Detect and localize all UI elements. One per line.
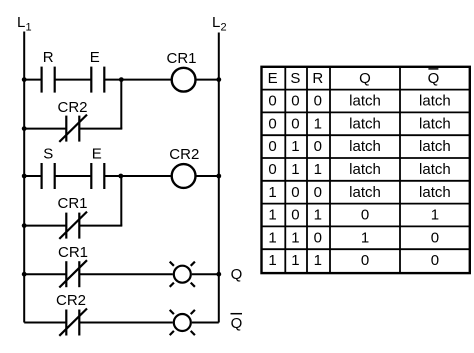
svg-text:Q: Q: [231, 266, 243, 283]
svg-text:CR2: CR2: [56, 292, 86, 309]
junction rung3 left: [22, 272, 27, 277]
svg-text:0: 0: [431, 229, 439, 246]
svg-text:0: 0: [268, 115, 276, 132]
svg-text:1: 1: [291, 229, 299, 246]
truth table header: [268, 70, 440, 87]
svg-text:0: 0: [314, 184, 322, 201]
junction rung2 left: [22, 174, 27, 179]
svg-text:0: 0: [291, 184, 299, 201]
wire branch2: [24, 176, 122, 226]
svg-text:0: 0: [431, 252, 439, 269]
svg-text:latch: latch: [419, 115, 451, 132]
svg-text:0: 0: [361, 252, 369, 269]
svg-text:1: 1: [291, 138, 299, 155]
svg-text:latch: latch: [349, 184, 381, 201]
svg-text:0: 0: [268, 161, 276, 178]
junction rung1 left: [22, 77, 27, 82]
svg-text:CR1: CR1: [166, 50, 196, 67]
svg-text:0: 0: [291, 93, 299, 110]
svg-text:1: 1: [314, 207, 322, 224]
svg-text:1: 1: [26, 21, 32, 33]
svg-text:latch: latch: [349, 115, 381, 132]
truth table row lines: [262, 90, 470, 250]
truth table row 2: [268, 115, 450, 132]
svg-text:latch: latch: [349, 138, 381, 155]
svg-text:S: S: [43, 146, 53, 163]
svg-text:CR2: CR2: [169, 146, 199, 163]
svg-text:S: S: [290, 70, 300, 87]
truth table row 1: [268, 93, 450, 110]
svg-text:0: 0: [314, 138, 322, 155]
svg-text:latch: latch: [419, 138, 451, 155]
svg-text:0: 0: [314, 93, 322, 110]
truth table row 3: [268, 138, 450, 155]
svg-text:0: 0: [291, 115, 299, 132]
svg-text:Q: Q: [428, 70, 440, 87]
contact E rung2: [91, 163, 104, 189]
svg-text:E: E: [268, 70, 278, 87]
truth table header Qbar overline: [428, 68, 438, 70]
truth table row 6: [268, 207, 439, 224]
junction rung2 branch: [118, 174, 123, 179]
label L1: [17, 14, 32, 33]
svg-text:0: 0: [268, 138, 276, 155]
truth table column lines: [285, 67, 400, 273]
svg-text:latch: latch: [349, 161, 381, 178]
svg-text:Q: Q: [359, 70, 371, 87]
svg-text:latch: latch: [419, 184, 451, 201]
junction rung2 right: [216, 174, 221, 179]
wire rung1: [24, 79, 219, 81]
svg-text:0: 0: [268, 93, 276, 110]
wire branch1: [24, 80, 122, 129]
contact CR2 NC rung4: [59, 309, 87, 336]
svg-text:1: 1: [431, 207, 439, 224]
svg-text:L: L: [17, 14, 25, 31]
svg-text:1: 1: [314, 252, 322, 269]
rail L2: [218, 33, 220, 323]
contact CR1 NC rung3: [59, 260, 87, 287]
lamp Qbar: [170, 310, 195, 335]
label Qbar output: [231, 314, 243, 332]
junction branch2 left: [22, 223, 27, 228]
contact CR1 NC branch2: [59, 212, 87, 239]
svg-text:1: 1: [268, 252, 276, 269]
svg-text:R: R: [43, 49, 54, 66]
junction rung1 branch: [119, 77, 124, 82]
contact E rung1: [91, 67, 104, 93]
svg-text:R: R: [312, 70, 323, 87]
svg-text:0: 0: [291, 207, 299, 224]
svg-text:latch: latch: [419, 93, 451, 110]
junction branch1 left: [22, 126, 27, 131]
svg-text:1: 1: [314, 161, 322, 178]
svg-text:1: 1: [361, 229, 369, 246]
svg-text:E: E: [90, 49, 100, 66]
svg-text:1: 1: [268, 184, 276, 201]
svg-text:CR2: CR2: [57, 99, 87, 116]
truth table row 7: [268, 229, 439, 246]
label L2: [212, 14, 227, 33]
svg-text:CR1: CR1: [57, 195, 87, 212]
truth table row 4: [268, 161, 450, 178]
svg-text:1: 1: [314, 115, 322, 132]
truth table row 5: [268, 184, 450, 201]
truth table row 8: [268, 252, 439, 269]
coil CR1: [172, 68, 196, 92]
svg-text:L: L: [212, 14, 220, 31]
lamp Q: [170, 262, 195, 287]
svg-text:latch: latch: [419, 161, 451, 178]
svg-text:Q: Q: [231, 315, 243, 332]
svg-text:1: 1: [291, 161, 299, 178]
svg-text:E: E: [92, 146, 102, 163]
contact R: [42, 67, 55, 93]
junction rung1 right: [216, 77, 221, 82]
svg-text:0: 0: [361, 207, 369, 224]
contact CR2 NC branch1: [59, 115, 87, 142]
coil CR2: [172, 164, 196, 188]
svg-text:2: 2: [221, 21, 227, 33]
wire rung2: [24, 175, 219, 177]
svg-text:0: 0: [314, 229, 322, 246]
contact S: [42, 163, 55, 189]
junction rung3 right: [216, 272, 221, 277]
svg-text:1: 1: [291, 252, 299, 269]
wire rung3: [24, 273, 219, 275]
wire rung4: [24, 322, 219, 324]
svg-text:1: 1: [268, 207, 276, 224]
svg-text:CR1: CR1: [58, 244, 88, 261]
svg-text:latch: latch: [349, 93, 381, 110]
truth table frame: [262, 67, 470, 273]
svg-text:1: 1: [268, 229, 276, 246]
rail L1: [23, 32, 25, 323]
